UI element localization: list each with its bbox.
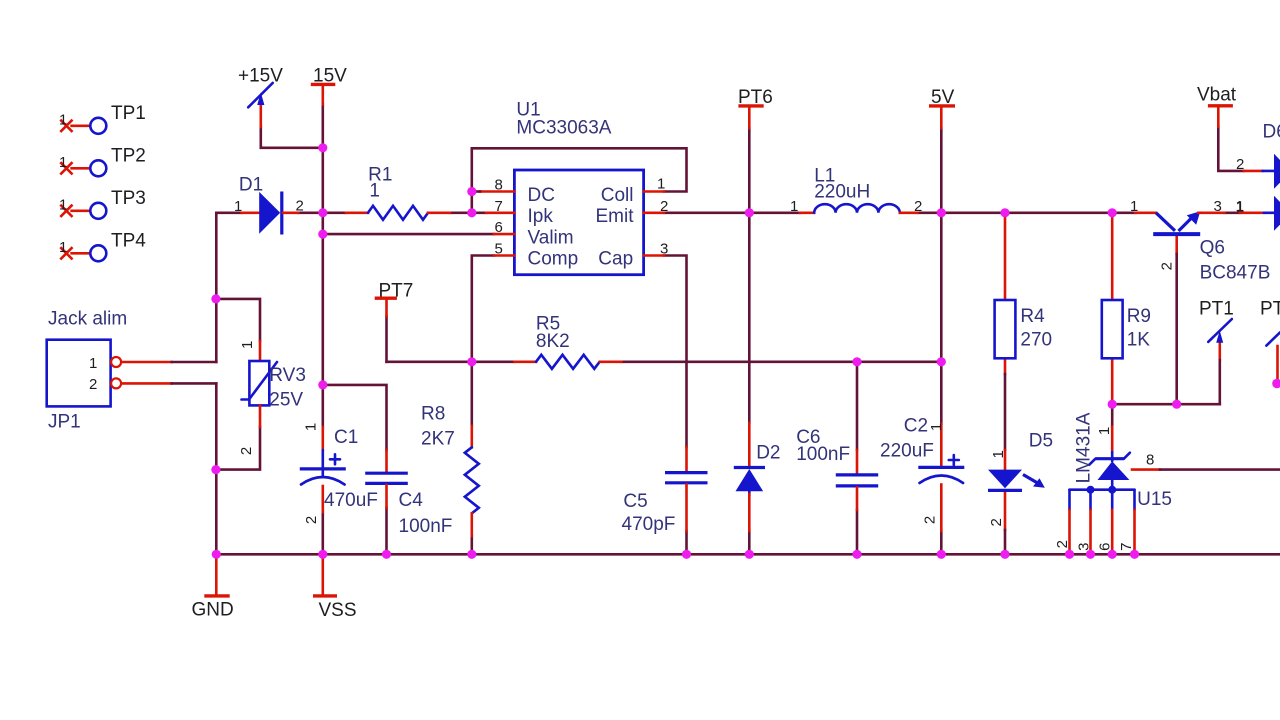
wire valim line: [323, 233, 494, 236]
wire 5V stem: [940, 128, 943, 213]
svg-text:C1: C1: [334, 427, 358, 448]
svg-text:2: 2: [238, 447, 255, 455]
svg-text:Coll: Coll: [601, 185, 634, 206]
svg-text:Jack alim: Jack alim: [48, 309, 127, 330]
svg-text:PT7: PT7: [379, 281, 414, 302]
svg-text:270: 270: [1020, 330, 1052, 351]
svg-text:220uH: 220uH: [814, 182, 870, 203]
svg-text:2: 2: [1054, 540, 1071, 548]
svg-text:2: 2: [1236, 156, 1244, 173]
svg-text:470pF: 470pF: [622, 514, 676, 535]
testpoint TP2: [61, 160, 106, 176]
varistor RV3: [242, 341, 278, 427]
svg-text:1: 1: [59, 239, 67, 256]
svg-text:Emit: Emit: [596, 206, 635, 227]
wire 5V to R5 line: [940, 213, 943, 362]
wire PT7 stem: [385, 316, 388, 361]
wire C4 branch horizontal: [323, 385, 387, 450]
wire R4 to D5: [1004, 358, 1007, 374]
svg-text:7: 7: [1118, 543, 1135, 551]
svg-text:2: 2: [914, 198, 922, 215]
pin 6 stub U1: [494, 233, 514, 236]
svg-text:3: 3: [660, 241, 668, 258]
ground GND: [215, 554, 218, 594]
svg-text:2: 2: [89, 376, 97, 393]
capacitor C2: [918, 424, 964, 531]
power symbol PT1 arrow: [1208, 319, 1232, 342]
testpoint TP1: [61, 118, 106, 134]
svg-text:2: 2: [922, 516, 939, 524]
wire D2 vertical top: [748, 213, 751, 423]
wire D1 anode vertical to jack pin1: [215, 213, 218, 362]
svg-text:JP1: JP1: [48, 412, 81, 433]
svg-text:1: 1: [369, 181, 380, 202]
svg-text:D1: D1: [239, 174, 263, 195]
svg-text:R4: R4: [1020, 306, 1045, 327]
wire R5 feedback line: [387, 360, 515, 363]
wire jack pin2 horizontal: [121, 382, 172, 385]
diode D1: [242, 192, 299, 235]
diode D6 lower: [1240, 196, 1280, 231]
svg-text:1: 1: [928, 423, 945, 431]
svg-text:TP4: TP4: [111, 231, 146, 252]
regulator U15 LM431A: [1070, 452, 1135, 554]
resistor R5: [515, 355, 622, 369]
svg-text:D2: D2: [756, 443, 780, 464]
pin 7 stub U1: [486, 212, 514, 215]
wire bottom ground bus: [216, 553, 1280, 556]
wire U1 pin5 corner down: [472, 256, 494, 362]
power symbol PT7: [385, 300, 388, 317]
svg-text:LM431A: LM431A: [1074, 412, 1095, 483]
svg-text:25V: 25V: [269, 389, 303, 410]
op-amp U1 MC33063A box: [514, 170, 643, 275]
LED D5: [988, 450, 1045, 490]
wire main line U1 pin2 to Q6: [664, 212, 800, 215]
wire main line D1 to R1: [298, 212, 346, 215]
svg-text:R9: R9: [1127, 306, 1151, 327]
svg-text:2K7: 2K7: [421, 429, 455, 450]
svg-text:R8: R8: [421, 404, 445, 425]
diode D6 upper: [1263, 154, 1280, 189]
svg-text:1: 1: [657, 176, 665, 193]
svg-text:7: 7: [495, 198, 503, 215]
pin 5 stub U1: [494, 254, 514, 257]
svg-text:BC847B: BC847B: [1200, 263, 1271, 284]
svg-text:RV3: RV3: [269, 365, 306, 386]
svg-text:1: 1: [59, 112, 67, 129]
svg-text:1: 1: [59, 197, 67, 214]
svg-text:8K2: 8K2: [536, 331, 570, 352]
svg-text:8: 8: [1146, 452, 1154, 469]
svg-text:1: 1: [59, 154, 67, 171]
svg-text:C2: C2: [904, 416, 928, 437]
svg-text:Vbat: Vbat: [1197, 85, 1237, 106]
svg-text:8: 8: [495, 177, 503, 194]
svg-text:3: 3: [1214, 198, 1222, 215]
power symbol PT6: [748, 108, 751, 129]
wire Vbat stem: [1218, 127, 1244, 171]
svg-text:2: 2: [988, 518, 1005, 526]
power symbol +15V arrow: [259, 104, 262, 127]
resistor R9: [1102, 300, 1123, 358]
wire jack pin2 to ground bus: [215, 383, 218, 554]
wire node horizontal LM431 to PT1: [1112, 403, 1220, 406]
svg-text:PT1: PT1: [1199, 299, 1234, 320]
svg-text:Ipk: Ipk: [528, 206, 554, 227]
wire R4 branch: [1004, 213, 1007, 300]
svg-text:6: 6: [495, 219, 503, 236]
svg-text:VSS: VSS: [319, 600, 357, 621]
svg-text:Cap: Cap: [598, 249, 633, 270]
wire C6 vertical: [856, 362, 859, 450]
wire Q6 collector down: [1175, 236, 1178, 254]
wire R8 top: [470, 362, 473, 426]
capacitor C5: [665, 447, 708, 531]
connector JP1 jack: [47, 340, 121, 407]
svg-text:GND: GND: [192, 600, 234, 621]
svg-text:100nF: 100nF: [796, 444, 850, 465]
wire D5 bottom: [1004, 492, 1007, 530]
wire R9 to node: [1111, 358, 1114, 404]
svg-text:220uF: 220uF: [880, 441, 934, 462]
svg-text:Comp: Comp: [528, 249, 579, 270]
resistor R1: [346, 206, 450, 220]
wire node to LM431: [1111, 404, 1114, 427]
inductor L1: [800, 204, 918, 213]
svg-text:15V: 15V: [313, 66, 347, 87]
svg-text:1: 1: [303, 423, 320, 431]
wire RV3 bottom branch: [216, 427, 260, 470]
svg-text:470uF: 470uF: [324, 490, 378, 511]
svg-text:TP1: TP1: [111, 103, 146, 124]
power symbol PT2 arrow: [1266, 332, 1280, 345]
capacitor C6: [836, 450, 878, 510]
svg-text:D5: D5: [1029, 431, 1053, 452]
svg-text:2: 2: [660, 198, 668, 215]
svg-text:1: 1: [1130, 198, 1138, 215]
svg-text:5V: 5V: [931, 87, 955, 108]
wire R1 to U1 pin7: [450, 212, 486, 215]
svg-text:C4: C4: [399, 490, 424, 511]
diode D2: [734, 423, 765, 531]
svg-text:DC: DC: [528, 185, 555, 206]
wire C5 bottom: [685, 531, 688, 554]
wire R8 bottom: [470, 536, 473, 554]
wire LM431 pin8 line: [1132, 468, 1160, 471]
resistor R4: [995, 300, 1016, 358]
junction dots: [318, 143, 327, 152]
wire C4 bottom: [385, 508, 388, 554]
wire C1 bottom: [321, 512, 324, 554]
svg-text:C5: C5: [623, 491, 647, 512]
wire 15V vertical: [321, 104, 324, 427]
node PT2 circle: [1272, 379, 1280, 389]
power symbol 5V: [940, 108, 943, 129]
capacitor C4: [365, 450, 408, 508]
pin 8 stub U1: [480, 190, 514, 193]
svg-text:5: 5: [495, 241, 503, 258]
svg-text:6: 6: [1096, 543, 1113, 551]
svg-text:MC33063A: MC33063A: [516, 117, 611, 138]
wire Q6 emitter to D6: [1225, 212, 1240, 215]
svg-text:TP3: TP3: [111, 188, 146, 209]
wire main line left D1 segment: [216, 212, 241, 215]
svg-text:PT6: PT6: [738, 87, 773, 108]
svg-text:1: 1: [239, 341, 256, 349]
wire RV3 top branch: [216, 299, 260, 341]
wire R9 branch: [1111, 213, 1114, 300]
wire jack pin1 horizontal: [121, 361, 172, 364]
svg-text:PT2: PT2: [1260, 299, 1280, 320]
svg-text:100nF: 100nF: [399, 516, 453, 537]
transistor Q6: [1135, 211, 1224, 234]
capacitor C1: [300, 427, 346, 512]
svg-text:1: 1: [1096, 427, 1113, 435]
wire PT6 stem: [748, 128, 751, 213]
testpoint TP3: [61, 203, 106, 219]
svg-text:1: 1: [1236, 198, 1244, 215]
wire +15V branch: [261, 127, 323, 148]
wire D2 bottom: [748, 531, 751, 554]
wire U1 pin3 corner down to C5: [664, 256, 687, 448]
svg-text:2: 2: [303, 516, 320, 524]
wire PT1 stem: [1219, 343, 1222, 361]
svg-text:1: 1: [790, 198, 798, 215]
svg-text:1K: 1K: [1127, 330, 1151, 351]
power symbol 15V: [321, 87, 324, 104]
svg-text:2: 2: [1159, 262, 1176, 270]
svg-text:1: 1: [990, 450, 1007, 458]
svg-text:3: 3: [1075, 543, 1092, 551]
svg-text:TP2: TP2: [111, 146, 146, 167]
wire C2 vertical: [940, 362, 943, 424]
svg-text:2: 2: [296, 198, 304, 215]
svg-text:1: 1: [234, 198, 242, 215]
ground VSS: [321, 554, 324, 594]
wire U1 top loop pin1 to pins 8,7: [472, 148, 687, 213]
pin 2 stub U1: [644, 212, 664, 215]
svg-text:1: 1: [89, 355, 97, 372]
svg-text:Valim: Valim: [528, 227, 574, 248]
pin 3 stub U1: [644, 254, 664, 257]
testpoint TP4: [61, 245, 106, 261]
svg-text:D6: D6: [1263, 122, 1280, 143]
svg-text:+15V: +15V: [238, 66, 283, 87]
pin 1 stub U1: [644, 190, 664, 193]
resistor R8: [465, 426, 479, 536]
svg-text:U15: U15: [1137, 489, 1172, 510]
svg-text:Q6: Q6: [1200, 237, 1225, 258]
power symbol Vbat: [1217, 107, 1220, 126]
